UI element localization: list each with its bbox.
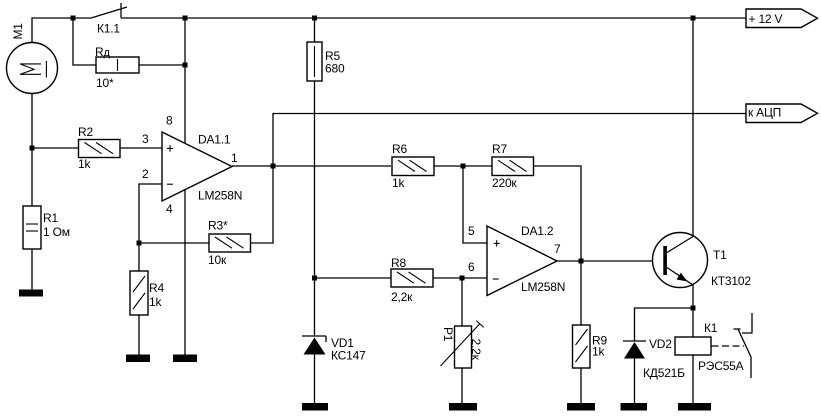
svg-text:К1.1: К1.1 [97,22,120,36]
resistor R2 [79,140,121,158]
ground K1 [678,403,711,411]
node junction top-left [71,16,76,21]
svg-text:R4: R4 [149,281,164,295]
wire R4 to ground [138,315,140,355]
wire pin8 column [184,18,186,144]
ground P1 [449,403,477,411]
svg-text:5: 5 [468,224,475,238]
svg-text:R3*: R3* [208,219,228,233]
wire R5 column down [314,81,316,336]
potentiometer P1 [441,278,484,403]
svg-text:LM258N: LM258N [198,189,242,203]
svg-text:2: 2 [142,167,149,181]
wire R8 left [315,277,392,279]
node junction collector column [691,16,696,21]
wire Rd branch left [73,18,96,65]
node junction output DA1.2 [579,259,584,264]
wire Rd right [139,64,185,66]
svg-text:к АЦП: к АЦП [748,105,781,119]
op-amp DA1.1 [162,132,232,201]
svg-text:7: 7 [554,242,561,256]
resistor R5 [307,18,322,81]
wire R2 left [32,147,79,149]
ground R9 [567,403,595,411]
svg-text:4: 4 [166,202,173,216]
op-amp DA1.2 [487,226,557,296]
resistor Rd [96,57,139,73]
svg-text:РЭС55А: РЭС55А [698,359,744,373]
svg-text:1: 1 [231,151,238,165]
svg-text:2,2к: 2,2к [469,339,483,361]
wire R2 to pin3 [120,147,162,149]
svg-text:Т1: Т1 [713,248,727,262]
node junction pin8 column [183,16,188,21]
switch K1.1 [91,3,127,18]
svg-text:1k: 1k [592,345,605,359]
wire pin4 to ground [184,189,186,355]
relay coil K1 [675,337,711,403]
svg-text:КТ3102: КТ3102 [711,274,751,288]
wire motor bottom [31,94,33,207]
ground pin4 [173,355,197,363]
svg-text:DA1.1: DA1.1 [198,133,231,147]
node junction R5/R8/VD1 [312,276,317,281]
svg-text:LM258N: LM258N [521,280,565,294]
svg-text:DA1.2: DA1.2 [521,224,554,238]
svg-text:10*: 10* [96,76,114,90]
svg-text:1k: 1k [78,157,91,171]
contact K1.2 [734,313,753,378]
svg-text:М1: М1 [11,23,25,40]
svg-text:VD2: VD2 [649,337,672,351]
resistor R4 [130,271,148,315]
diode VD2 [623,341,646,403]
svg-text:R2: R2 [78,125,93,139]
transistor T1 [653,233,708,288]
resistor R1 [23,206,41,249]
wire R1 to ground [31,249,33,290]
svg-text:2,2к: 2,2к [391,290,413,304]
ground VD2 [621,403,648,411]
svg-text:1k: 1k [149,295,162,309]
svg-text:680: 680 [325,62,345,76]
svg-text:+ 12 V: + 12 V [749,12,783,26]
svg-text:8: 8 [166,114,173,128]
svg-text:R1: R1 [43,211,58,225]
wire R7 feedback [534,166,582,261]
svg-text:6: 6 [468,260,475,274]
wire collector column [692,18,694,237]
resistor R7 [492,157,534,176]
wire emitter to VD2 [635,308,694,341]
svg-text:R6: R6 [392,142,407,156]
svg-text:К1: К1 [704,321,718,335]
motor M1 [7,43,58,94]
node junction motor/R2 [30,146,35,151]
wire top rail right segment [121,17,746,19]
wire top rail left segment [32,18,91,43]
svg-text:Р1: Р1 [441,327,455,342]
ground R4 [126,355,150,363]
wire R3 right up to output [251,166,274,243]
wire pin2 [139,184,162,271]
resistor R8 [391,269,433,287]
ground VD1 [302,403,328,411]
svg-text:220к: 220к [492,176,517,190]
svg-text:3: 3 [142,132,149,146]
node junction R5 column [312,16,317,21]
wire dashed link K1 [712,345,745,347]
svg-text:Rд: Rд [95,45,110,59]
svg-text:КС147: КС147 [331,349,366,363]
wire DA1.2 output [557,260,664,262]
wire R3 row [139,242,209,244]
resistor R3* [209,234,251,252]
wire to ADC [273,114,746,167]
terminal k ADC [746,104,818,123]
node junction output DA1.1 [271,164,276,169]
ground R1 [19,290,43,297]
wire R8 right to pin6 [433,277,487,279]
svg-text:1k: 1k [392,176,405,190]
wire R6 to R7 [434,165,492,167]
svg-text:10к: 10к [208,253,227,267]
node junction Rd right [183,63,188,68]
wire emitter down [692,285,694,337]
wire pin5 drop [463,166,487,243]
svg-text:КД521Б: КД521Б [643,366,685,380]
resistor R9 [573,261,591,403]
resistor R6 [392,157,434,176]
node junction emitter/VD2/K1 [691,306,696,311]
node junction R6/R7/pin5 [461,164,466,169]
svg-text:R7: R7 [492,142,507,156]
svg-text:R8: R8 [391,256,406,270]
svg-text:1 Ом: 1 Ом [43,225,70,239]
node junction pin2/R3/R4 [137,241,142,246]
node junction pin6/pot [460,276,465,281]
wire DA1.1 output [232,165,391,167]
terminal +12V [746,9,818,28]
zener VD1 [302,336,326,403]
